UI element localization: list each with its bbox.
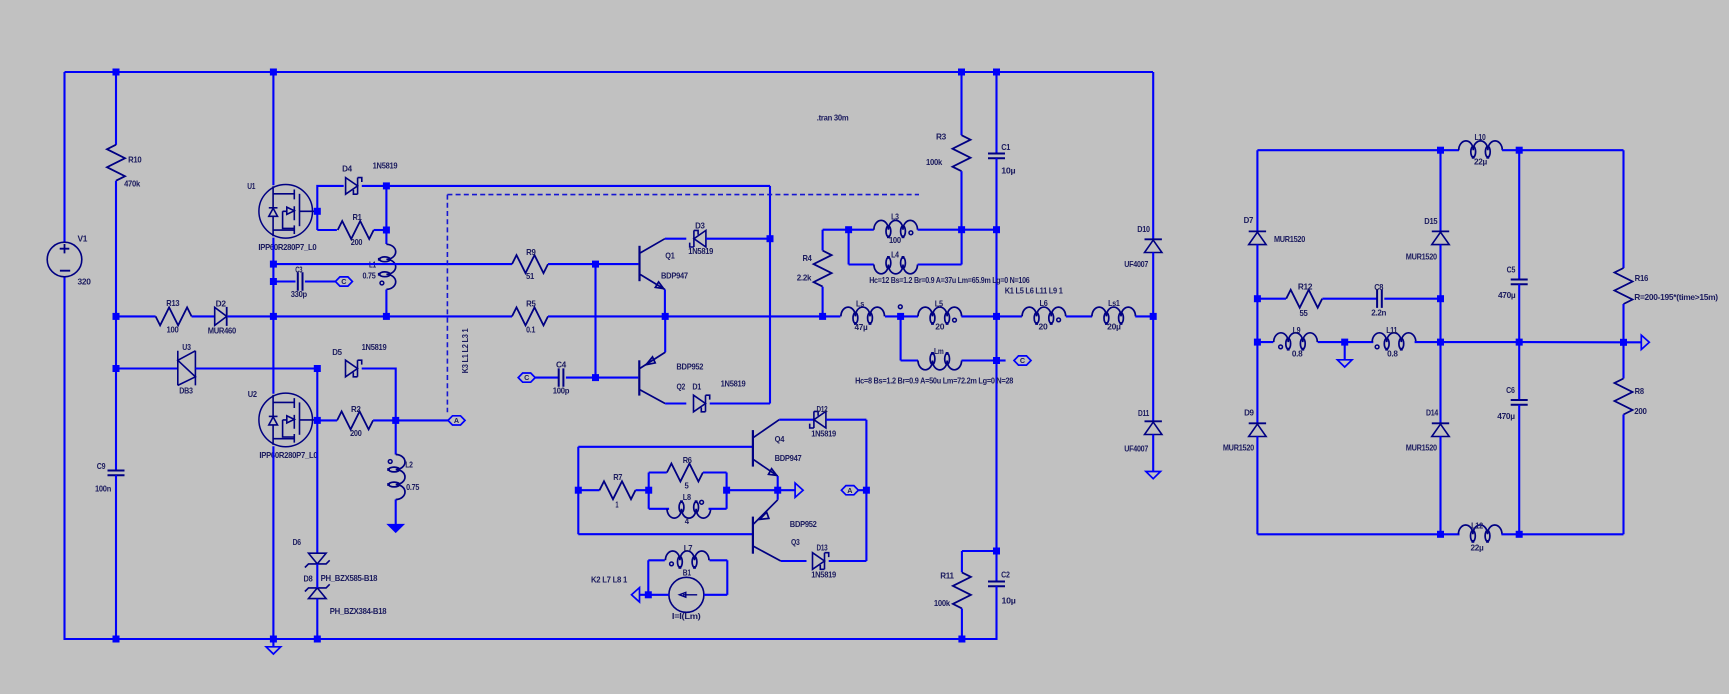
junction xyxy=(767,235,774,242)
svg-text:.tran 30m: .tran 30m xyxy=(817,113,849,123)
wire gate node down to D6 xyxy=(316,420,318,553)
wire D3 to right vertical xyxy=(706,238,770,240)
junction xyxy=(113,313,120,320)
capacitor C4 xyxy=(559,368,564,386)
junction xyxy=(774,487,781,494)
wire R11 top corner xyxy=(962,550,997,552)
capacitor C6 xyxy=(1511,400,1528,405)
capacitor C8 xyxy=(1377,290,1382,308)
wire R1 to L1 node xyxy=(374,229,387,231)
svg-text:5: 5 xyxy=(685,480,690,490)
svg-text:1N5819: 1N5819 xyxy=(373,160,398,170)
svg-text:C1: C1 xyxy=(1001,142,1010,152)
wire U1 source column xyxy=(272,238,274,317)
svg-text:1N5819: 1N5819 xyxy=(688,246,713,256)
diode D1 xyxy=(694,395,706,412)
diode D11 xyxy=(1145,420,1162,422)
svg-text:C9: C9 xyxy=(97,461,106,471)
svg-text:Lm: Lm xyxy=(934,346,944,356)
junction xyxy=(1254,339,1261,346)
wire to R7 xyxy=(578,489,599,491)
wire L8 right lead xyxy=(709,508,727,510)
wire R9 to Q1 base xyxy=(548,263,638,265)
wire right bottom rail b xyxy=(1501,533,1623,535)
wire L1 bottom lead xyxy=(385,290,387,317)
ground under L2 xyxy=(388,525,403,532)
junction xyxy=(314,417,321,424)
svg-text:BDP947: BDP947 xyxy=(775,453,802,463)
wire Q1 emitter down xyxy=(664,290,666,317)
svg-text:1N5819: 1N5819 xyxy=(362,342,387,352)
junction xyxy=(270,69,277,76)
svg-text:DB3: DB3 xyxy=(179,385,193,395)
svg-text:1N5819: 1N5819 xyxy=(721,379,746,389)
svg-text:C2: C2 xyxy=(1001,570,1010,580)
svg-text:MUR460: MUR460 xyxy=(208,326,237,336)
junction xyxy=(845,226,852,233)
wire lower right vertical xyxy=(865,420,867,561)
junction xyxy=(592,261,599,268)
wire L4 left lead xyxy=(849,263,874,265)
wire combo right bar xyxy=(726,473,728,509)
wire C4 node to Q2 base xyxy=(596,377,639,379)
svg-text:1N5819: 1N5819 xyxy=(811,569,836,579)
wire C1 top lead xyxy=(995,72,997,154)
diac U3 xyxy=(178,351,196,386)
wire Q2 emitter up to junction xyxy=(664,316,666,352)
ground L9/L11 mid xyxy=(1337,360,1352,367)
wire ground stub mid xyxy=(1344,342,1346,360)
wire R3 top lead xyxy=(960,72,962,135)
junction xyxy=(1437,531,1444,538)
wire D7 top lead xyxy=(1256,150,1258,231)
svg-text:100k: 100k xyxy=(926,157,943,167)
resistor R11 xyxy=(953,572,971,608)
svg-text:2.2k: 2.2k xyxy=(797,273,812,283)
svg-text:Q2: Q2 xyxy=(677,382,686,392)
capacitor C2 xyxy=(988,582,1005,587)
transistor Q2 xyxy=(639,352,665,403)
wire mid rail e xyxy=(961,315,1022,317)
svg-text:1N5819: 1N5819 xyxy=(811,428,836,438)
wire R10 top lead xyxy=(115,72,117,145)
wire flag A stub xyxy=(858,489,866,491)
wire R2 to flag A xyxy=(373,419,448,421)
svg-text:200: 200 xyxy=(350,428,362,438)
wire C2 top lead xyxy=(995,551,997,582)
capacitor C9 xyxy=(108,471,125,476)
svg-text:Q3: Q3 xyxy=(791,537,800,547)
resistor R1 xyxy=(338,221,374,239)
svg-text:A: A xyxy=(847,486,852,495)
svg-text:2.2n: 2.2n xyxy=(1371,307,1386,317)
svg-text:K1 L5 L6 L11 L9 1: K1 L5 L6 L11 L9 1 xyxy=(1005,286,1063,296)
wire L7 right vertical xyxy=(726,560,728,595)
svg-text:L4: L4 xyxy=(891,250,899,260)
wire combo left bar xyxy=(648,473,650,509)
junction xyxy=(592,374,599,381)
wire box left edge xyxy=(577,447,579,534)
svg-text:D7: D7 xyxy=(1244,215,1254,225)
diode D7 xyxy=(1249,230,1266,232)
svg-text:L10: L10 xyxy=(1475,132,1487,142)
svg-text:Hc=12 Bs=1.2 Br=0.9 A=37u Lm=6: Hc=12 Bs=1.2 Br=0.9 A=37u Lm=65.9m Lg=0 … xyxy=(869,275,1030,285)
zener D6 xyxy=(309,553,327,564)
wire R6 left lead xyxy=(649,471,667,473)
dashed coupling outline K3 xyxy=(447,195,919,413)
ground bottom rail xyxy=(266,647,281,654)
wire D15 to D14 xyxy=(1439,244,1441,423)
svg-text:IPP60R280P7_L0: IPP60R280P7_L0 xyxy=(258,242,317,252)
svg-text:0.1: 0.1 xyxy=(526,325,536,335)
wire R7 to combo xyxy=(636,489,649,491)
svg-text:PH_BZX384-B18: PH_BZX384-B18 xyxy=(330,606,387,616)
svg-text:55: 55 xyxy=(1300,308,1309,318)
wire Q2 collector to D1 xyxy=(665,402,686,404)
wire to R12 xyxy=(1257,298,1286,300)
svg-text:0.75: 0.75 xyxy=(406,482,420,492)
wire B1 left lead xyxy=(648,594,669,596)
junction xyxy=(1341,339,1348,346)
wire Lm branch vertical xyxy=(900,316,902,360)
junction xyxy=(1516,147,1523,154)
wire L3 right lead xyxy=(918,229,962,231)
svg-text:10µ: 10µ xyxy=(1002,596,1016,606)
wire U3 node down to U2 gate xyxy=(316,369,318,421)
wire R16 bottom lead xyxy=(1622,304,1624,342)
inductor Ls1 xyxy=(1092,307,1136,325)
svg-text:10µ: 10µ xyxy=(1001,166,1015,176)
wire L2 bottom lead xyxy=(395,500,397,525)
svg-text:R7: R7 xyxy=(613,472,623,482)
svg-text:UF4007: UF4007 xyxy=(1124,259,1148,269)
junction xyxy=(645,487,652,494)
junction xyxy=(270,313,277,320)
svg-text:20µ: 20µ xyxy=(1107,322,1121,332)
wire L2 top lead xyxy=(395,420,397,454)
wire L9 to L11 xyxy=(1318,341,1374,343)
wire mid rail d xyxy=(885,315,918,317)
wire R4 bottom lead xyxy=(822,287,824,317)
diode D3 xyxy=(694,230,706,247)
mosfet U1 xyxy=(259,185,317,239)
svg-text:R3: R3 xyxy=(936,132,947,142)
wire R4 top corner xyxy=(823,229,849,231)
transistor Q1 xyxy=(640,239,665,290)
wire left column lower xyxy=(63,277,65,640)
junction xyxy=(1516,339,1523,346)
wire right vertical upper xyxy=(769,186,771,239)
svg-text:100: 100 xyxy=(167,324,179,334)
svg-text:B1: B1 xyxy=(683,568,692,578)
svg-text:L6: L6 xyxy=(1040,298,1049,308)
inductor L11 xyxy=(1372,333,1416,351)
inductor Lm xyxy=(918,352,962,370)
wire D7 to D9 xyxy=(1256,244,1258,423)
svg-text:D13: D13 xyxy=(817,542,828,552)
inductor Ls xyxy=(841,307,885,325)
junction xyxy=(1516,531,1523,538)
svg-text:Ls1: Ls1 xyxy=(1108,298,1120,308)
wire R6 right lead xyxy=(703,471,727,473)
inductor L3 xyxy=(874,220,918,238)
junction xyxy=(993,226,1000,233)
svg-text:U3: U3 xyxy=(182,342,191,352)
junction xyxy=(270,278,277,285)
ground under D11 xyxy=(1146,472,1161,479)
wire combo to emitter junction xyxy=(727,489,796,491)
svg-text:U2: U2 xyxy=(248,389,258,399)
port arrow left (B1) xyxy=(632,588,640,602)
svg-text:K3 L1 L2 L3 1: K3 L1 L2 L3 1 xyxy=(460,328,470,373)
svg-text:20: 20 xyxy=(1039,322,1049,332)
port arrow right (emitters) xyxy=(795,483,803,497)
wire L11 to D15 column xyxy=(1415,341,1441,343)
svg-text:R=200-195*(time>15m): R=200-195*(time>15m) xyxy=(1634,292,1718,302)
junction xyxy=(993,548,1000,555)
wire L3 left lead xyxy=(849,229,874,231)
svg-text:MUR1520: MUR1520 xyxy=(1406,443,1438,453)
svg-text:R5: R5 xyxy=(526,299,536,309)
wire U3 to D5 node xyxy=(195,367,317,369)
junction xyxy=(314,636,321,643)
wire C1 column down to C2 node xyxy=(995,158,997,551)
wire gate to R1 xyxy=(317,229,337,231)
wire D4 to right vertical xyxy=(362,185,770,187)
net flag C (gate drive) xyxy=(335,277,352,286)
svg-text:20: 20 xyxy=(935,322,945,332)
wire L7 right lead xyxy=(710,559,728,561)
wire right top rail b xyxy=(1502,149,1623,151)
svg-text:C4: C4 xyxy=(556,360,567,370)
wire R11 bottom lead xyxy=(961,609,963,640)
wire Q3 collector to D13 xyxy=(781,560,807,562)
wire C5 top lead xyxy=(1518,150,1520,279)
wire R12 to C8 xyxy=(1322,298,1377,300)
svg-text:470µ: 470µ xyxy=(1497,411,1515,421)
junction xyxy=(645,591,652,598)
svg-text:R2: R2 xyxy=(351,404,361,414)
wire right bottom rail a xyxy=(1257,533,1459,535)
junction xyxy=(1437,147,1444,154)
wire to C3 xyxy=(273,280,295,282)
wire L7 left vertical xyxy=(647,560,649,595)
diode D10 xyxy=(1145,238,1162,240)
wire box top edge xyxy=(578,446,753,448)
resistor R13 xyxy=(156,307,192,325)
net flag A (left) xyxy=(448,416,465,425)
svg-text:R10: R10 xyxy=(128,154,142,164)
wire L1 top lead xyxy=(385,186,387,244)
wire arrow stub right xyxy=(1624,341,1642,343)
wire C6 top lead xyxy=(1518,342,1520,400)
wire Q4 emitter down xyxy=(777,476,779,490)
junction xyxy=(1620,339,1627,346)
svg-text:L3: L3 xyxy=(891,211,899,221)
wire mid rail c xyxy=(548,315,840,317)
wire C2 bottom lead xyxy=(995,586,997,640)
wire mid row right a xyxy=(1441,341,1520,343)
wire D10 to D11 xyxy=(1152,252,1154,421)
svg-text:MUR1520: MUR1520 xyxy=(1223,443,1255,453)
junction xyxy=(1437,295,1444,302)
junction xyxy=(1150,313,1157,320)
wire source row to R9 xyxy=(273,263,512,265)
wire D9 to bottom xyxy=(1256,436,1258,534)
wire flag to C4 xyxy=(535,377,559,379)
zener D8 xyxy=(309,588,327,599)
svg-text:320: 320 xyxy=(78,277,92,287)
wire C4 to junction xyxy=(566,377,596,379)
wire C5 bottom lead xyxy=(1518,284,1520,342)
svg-text:R12: R12 xyxy=(1298,282,1313,292)
wire to L9 xyxy=(1257,341,1273,343)
wire L4 left vertical xyxy=(848,230,850,265)
svg-text:D12: D12 xyxy=(817,404,828,414)
junction xyxy=(1254,295,1261,302)
port arrow right (output) xyxy=(1641,335,1649,349)
diode D13 xyxy=(813,553,825,570)
inductor L9 xyxy=(1274,333,1318,351)
svg-text:BDP947: BDP947 xyxy=(661,270,688,280)
wire C9 to bottom rail xyxy=(115,475,117,640)
svg-text:4: 4 xyxy=(685,516,690,526)
wire mid rail b xyxy=(228,315,512,317)
wire mid rail to U2 drain xyxy=(272,316,274,393)
junction xyxy=(270,636,277,643)
junction xyxy=(819,313,826,320)
junction xyxy=(897,313,904,320)
junction xyxy=(993,357,1000,364)
diode D2 xyxy=(215,307,227,325)
svg-text:R9: R9 xyxy=(526,247,536,257)
resistor R6 xyxy=(667,464,703,482)
svg-text:1: 1 xyxy=(615,499,618,509)
svg-text:MUR1520: MUR1520 xyxy=(1274,234,1306,244)
diode D14 xyxy=(1432,422,1449,424)
junction xyxy=(958,226,965,233)
wire Q1 collector to D3 xyxy=(665,238,686,240)
mosfet U2 xyxy=(259,393,317,447)
inductor L2 xyxy=(387,455,405,500)
inductor L12 xyxy=(1458,525,1502,543)
junction xyxy=(958,69,965,76)
wire R8 top lead xyxy=(1622,342,1624,378)
junction xyxy=(314,365,321,372)
svg-text:200: 200 xyxy=(351,237,363,247)
wire bottom rail xyxy=(64,638,997,640)
inductor L8 xyxy=(667,500,711,518)
junction xyxy=(270,261,277,268)
svg-text:L2: L2 xyxy=(405,459,413,469)
resistor R5 xyxy=(512,307,548,325)
transistor Q4 xyxy=(753,420,779,476)
behavioral current source B1 xyxy=(669,577,704,612)
wire R4 top lead xyxy=(822,230,824,251)
svg-text:470µ: 470µ xyxy=(1498,290,1516,300)
svg-text:D1: D1 xyxy=(692,382,701,392)
svg-text:BDP952: BDP952 xyxy=(790,519,817,529)
diode D15 xyxy=(1432,230,1449,232)
wire L4 right lead xyxy=(918,263,962,265)
junction xyxy=(113,365,120,372)
svg-text:22µ: 22µ xyxy=(1471,542,1484,552)
wire D8 to bottom rail xyxy=(316,599,318,640)
svg-text:IPP60R280P7_L0: IPP60R280P7_L0 xyxy=(259,450,318,460)
wire R13 to D2 xyxy=(192,315,215,317)
svg-text:R4: R4 xyxy=(802,253,812,263)
svg-text:R11: R11 xyxy=(940,571,954,581)
svg-text:V1: V1 xyxy=(78,234,88,244)
wire mid rail g xyxy=(1135,315,1153,317)
junction xyxy=(1437,339,1444,346)
svg-text:D6: D6 xyxy=(293,537,302,547)
junction xyxy=(314,208,321,215)
svg-text:D14: D14 xyxy=(1426,408,1439,418)
wire C8 to D15 column xyxy=(1384,298,1440,300)
wire D5 to R2 node xyxy=(362,369,396,421)
svg-text:D5: D5 xyxy=(332,347,342,357)
wire ground stub xyxy=(272,639,274,647)
svg-text:R8: R8 xyxy=(1635,386,1645,396)
svg-text:C: C xyxy=(1020,356,1025,365)
svg-text:K2 L7 L8 1: K2 L7 L8 1 xyxy=(591,575,628,585)
resistor R10 xyxy=(107,145,125,181)
svg-text:C6: C6 xyxy=(1506,385,1515,395)
svg-text:100: 100 xyxy=(889,235,901,245)
svg-text:L11: L11 xyxy=(1386,325,1398,335)
svg-text:0.8: 0.8 xyxy=(1387,349,1398,359)
junction xyxy=(383,313,390,320)
svg-text:D10: D10 xyxy=(1137,224,1150,234)
svg-text:D11: D11 xyxy=(1138,408,1149,418)
wire R11 top lead xyxy=(961,551,963,572)
svg-text:C5: C5 xyxy=(1507,264,1516,274)
junction xyxy=(863,487,870,494)
svg-text:22µ: 22µ xyxy=(1474,156,1487,166)
svg-text:R16: R16 xyxy=(1635,273,1649,283)
junction xyxy=(662,313,669,320)
svg-text:Q1: Q1 xyxy=(665,251,675,261)
wire U2 gate to R2 xyxy=(317,419,337,421)
svg-text:C: C xyxy=(524,373,529,382)
wire Lm right lead xyxy=(962,359,997,361)
wire R8 bottom lead xyxy=(1622,415,1624,535)
wire C6 bottom lead xyxy=(1518,405,1520,535)
wire top to D10 xyxy=(1152,72,1154,239)
svg-text:L9: L9 xyxy=(1293,325,1301,335)
junction xyxy=(113,636,120,643)
svg-text:L8: L8 xyxy=(683,492,692,502)
junction xyxy=(993,69,1000,76)
svg-text:A: A xyxy=(454,416,459,425)
junction xyxy=(113,69,120,76)
wire Lm left lead xyxy=(901,359,918,361)
svg-text:D4: D4 xyxy=(342,163,352,173)
wire top rail xyxy=(65,71,1154,73)
junction xyxy=(392,417,399,424)
resistor R3 xyxy=(953,135,971,171)
net flag C (Lm) xyxy=(1014,356,1031,365)
svg-text:Q4: Q4 xyxy=(775,434,785,444)
wire top rail to U1 drain xyxy=(272,72,274,185)
svg-text:D15: D15 xyxy=(1424,216,1438,226)
svg-text:0.8: 0.8 xyxy=(1292,349,1303,359)
resistor R16 xyxy=(1615,268,1633,304)
inductor L5 xyxy=(918,307,962,325)
svg-text:I=I(Lm): I=I(Lm) xyxy=(672,611,701,621)
wire to flag C out xyxy=(997,359,1006,361)
